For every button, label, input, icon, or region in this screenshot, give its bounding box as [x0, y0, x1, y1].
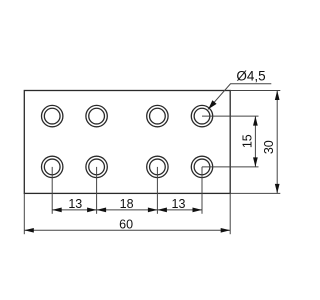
svg-text:Ø4,5: Ø4,5: [236, 68, 265, 83]
arrow 13 right-end: [87, 208, 97, 213]
extension lines for 60: [24, 193, 230, 234]
hole H2: [86, 105, 107, 126]
dimension line 15: [254, 116, 256, 167]
svg-text:15: 15: [240, 134, 254, 148]
dimension line 13 right: [157, 209, 202, 211]
dimension line 60: [24, 229, 230, 231]
hole H1 top-left: [42, 105, 63, 126]
arrow 60 left-end: [24, 228, 34, 233]
hole H3: [147, 105, 168, 126]
hole H4 top-right: [191, 105, 212, 126]
arrow 13r right-end: [193, 208, 203, 213]
dimension line 18: [97, 209, 158, 211]
svg-text:13: 13: [172, 197, 186, 211]
svg-text:13: 13: [68, 197, 82, 211]
leader line for hole diameter: [208, 84, 271, 110]
leader arrowhead: [208, 100, 216, 109]
extension lines for 30: [230, 91, 280, 194]
svg-text:60: 60: [119, 217, 133, 231]
dimension line 13 left: [52, 209, 96, 211]
arrow 15 bottom: [253, 157, 258, 167]
plate outline: [24, 91, 230, 194]
arrow 13r left-end: [157, 208, 167, 213]
arrow 60 right-end: [221, 228, 231, 233]
hole H7: [147, 156, 168, 177]
arrow 18 right-end: [148, 208, 158, 213]
svg-text:30: 30: [262, 140, 276, 154]
arrow 15 top: [253, 116, 258, 126]
hole H8 bottom-right: [191, 156, 212, 177]
dimension line 30: [276, 91, 278, 194]
svg-text:18: 18: [120, 197, 134, 211]
arrow 30 top: [275, 91, 280, 101]
hole H5 bottom-left: [42, 156, 63, 177]
arrow 13 left-end: [52, 208, 62, 213]
arrow 30 bottom: [275, 184, 280, 194]
arrow 18 left-end: [97, 208, 107, 213]
hole H6: [86, 156, 107, 177]
extension lines for 15: [202, 116, 259, 167]
extension lines from bottom holes: [52, 167, 202, 214]
